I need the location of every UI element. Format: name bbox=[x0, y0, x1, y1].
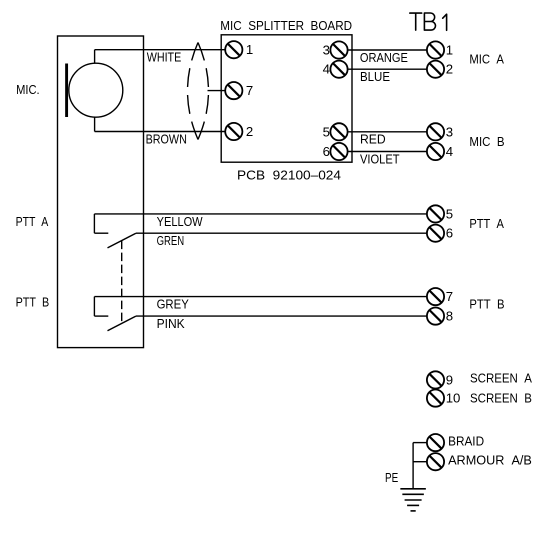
svg-text:ARMOUR A/B: ARMOUR A/B bbox=[448, 453, 532, 468]
svg-text:2: 2 bbox=[446, 62, 453, 77]
svg-text:MIC B: MIC B bbox=[469, 134, 504, 149]
svg-text:2: 2 bbox=[246, 124, 253, 139]
svg-text:BLUE: BLUE bbox=[360, 69, 390, 84]
svg-text:PTT A: PTT A bbox=[469, 216, 504, 231]
svg-text:MIC A: MIC A bbox=[469, 51, 504, 66]
svg-text:PTT B: PTT B bbox=[469, 297, 504, 312]
svg-text:3: 3 bbox=[446, 124, 453, 139]
svg-text:GREN: GREN bbox=[157, 233, 185, 248]
svg-text:4: 4 bbox=[323, 62, 330, 77]
svg-text:PTT B: PTT B bbox=[16, 295, 50, 310]
svg-text:5: 5 bbox=[446, 206, 453, 221]
svg-text:6: 6 bbox=[323, 144, 330, 159]
svg-text:5: 5 bbox=[323, 124, 330, 139]
svg-text:1: 1 bbox=[246, 42, 253, 57]
svg-text:9: 9 bbox=[446, 372, 453, 387]
svg-text:VIOLET: VIOLET bbox=[360, 151, 400, 166]
svg-text:SCREEN B: SCREEN B bbox=[470, 391, 532, 406]
svg-text:BROWN: BROWN bbox=[146, 131, 187, 146]
svg-text:WHITE: WHITE bbox=[147, 50, 182, 65]
svg-text:1: 1 bbox=[446, 43, 453, 58]
svg-text:GREY: GREY bbox=[157, 297, 189, 312]
svg-text:10: 10 bbox=[446, 391, 461, 406]
svg-text:MIC.: MIC. bbox=[16, 82, 39, 97]
svg-text:MIC SPLITTER BOARD: MIC SPLITTER BOARD bbox=[220, 18, 352, 33]
svg-text:ORANGE: ORANGE bbox=[360, 50, 408, 65]
svg-text:4: 4 bbox=[446, 144, 453, 159]
svg-text:PINK: PINK bbox=[157, 316, 185, 331]
svg-text:PCB 92100–024: PCB 92100–024 bbox=[237, 168, 341, 183]
svg-text:6: 6 bbox=[446, 226, 453, 241]
svg-text:PTT A: PTT A bbox=[16, 214, 49, 229]
svg-text:7: 7 bbox=[246, 83, 253, 98]
svg-text:SCREEN A: SCREEN A bbox=[470, 371, 532, 386]
svg-text:3: 3 bbox=[323, 43, 330, 58]
svg-text:YELLOW: YELLOW bbox=[157, 214, 203, 229]
svg-text:RED: RED bbox=[360, 132, 386, 147]
svg-text:7: 7 bbox=[446, 289, 453, 304]
svg-text:PE: PE bbox=[385, 470, 398, 485]
svg-text:8: 8 bbox=[446, 309, 453, 324]
svg-text:BRAID: BRAID bbox=[448, 434, 484, 449]
